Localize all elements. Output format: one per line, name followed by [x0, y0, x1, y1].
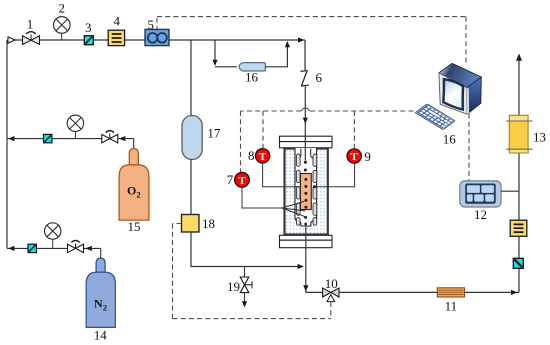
buffer vessel 17: [182, 116, 202, 160]
svg-text:1: 1: [27, 17, 34, 32]
computer 16: monitor: [439, 63, 481, 114]
node: open arrow at top-left corner: [8, 37, 15, 43]
O2 cylinder 15: [119, 149, 149, 221]
gauge on O2 line: [67, 115, 83, 139]
wire: bottom line to valve 10: [306, 291, 323, 293]
node: arrow after N2 regulator: [86, 246, 92, 251]
signal: bus down to monitor: [465, 17, 467, 63]
heater dots: [304, 178, 307, 209]
svg-text:7: 7: [227, 172, 234, 187]
wire: 18 down and right to junction: [191, 232, 303, 267]
controller 18: [182, 215, 200, 233]
node: arrow into left manifold (N2): [8, 246, 14, 251]
node: arrow down on outlet: [303, 285, 308, 291]
analyzer 12: [460, 181, 501, 207]
wire: T7 leads fan: [242, 187, 306, 217]
computer 16: keyboard: [415, 104, 455, 130]
wire: reactor centerline inside tube: [304, 136, 306, 161]
node: thermocouple dots on centerline: [304, 161, 307, 164]
flow meter 16 (capsule): [239, 63, 265, 71]
node: arrow into left manifold (O2): [8, 136, 14, 141]
filter on N2 line: [28, 244, 36, 252]
wire: vessel to box 18: [190, 160, 192, 215]
signal: pump 5 to DAQ bus: [156, 17, 158, 31]
svg-text:19: 19: [227, 279, 240, 294]
wire: O2 bottle riser: [133, 139, 135, 149]
signal: thermocouple bus to keyboard: [241, 110, 414, 112]
wire: T8 lead: [263, 163, 300, 187]
wire: reactor outlet down: [305, 226, 307, 293]
condenser 11: [437, 288, 464, 297]
node: vent arrow up: [516, 54, 522, 61]
wire: O2 feed line: [7, 138, 134, 140]
filter (cyan) on right line: [513, 258, 523, 268]
filter on O2 line: [44, 134, 52, 142]
node: dots below heater: [304, 216, 307, 219]
valve 10: [323, 288, 339, 302]
node: arrow after O2 regulator: [119, 136, 125, 141]
wire: right vertical up: [518, 58, 520, 292]
wire: T9 lead: [314, 163, 354, 187]
regulator on O2 line: [102, 131, 118, 143]
signal: drop to T9: [353, 111, 355, 149]
reactor dotted jacket: [285, 149, 328, 235]
signal: drop to T8: [262, 111, 264, 149]
wire: bypass bottom line: [215, 66, 237, 68]
catalyst holder pills left: [296, 154, 300, 225]
svg-text:2: 2: [59, 1, 66, 16]
wire: N2 bottle riser: [100, 248, 102, 258]
svg-text:11: 11: [445, 299, 458, 314]
svg-text:16: 16: [245, 70, 259, 85]
wire: analyzer to right line: [501, 190, 519, 192]
reactor bottom flange: [280, 235, 333, 240]
svg-text:17: 17: [207, 126, 221, 141]
svg-text:T: T: [351, 151, 359, 163]
svg-text:15: 15: [128, 219, 141, 234]
signal: drop to T7: [240, 111, 242, 172]
svg-text:8: 8: [248, 148, 255, 163]
svg-text:16: 16: [443, 132, 457, 147]
svg-text:T: T: [259, 151, 267, 163]
flow meter (yellow) on right line: [510, 220, 527, 236]
reactor inner quartz tube: [295, 148, 317, 226]
svg-text:6: 6: [315, 70, 322, 85]
thermocouple T9: [347, 149, 361, 163]
wire: drop to buffer vessel 17: [190, 40, 192, 116]
wire: left vertical manifold: [6, 40, 8, 248]
thermocouple T7: [235, 172, 250, 187]
svg-text:3: 3: [85, 20, 92, 35]
gauge 2: [54, 17, 71, 40]
signal: controller 18 loop: [173, 224, 331, 319]
signal: valve 10 actuator: [330, 302, 332, 319]
heater element: [300, 174, 311, 210]
wire: bottom line right: [339, 291, 519, 293]
reactor top flange: [280, 136, 333, 141]
signal: monitor to analyzer 12: [468, 114, 470, 181]
svg-text:T: T: [238, 175, 246, 187]
node: arrow on main line before corner: [298, 37, 304, 42]
wire: N2 feed line: [7, 247, 101, 249]
sampling break 6: [300, 71, 308, 87]
svg-text:4: 4: [114, 13, 121, 28]
svg-text:10: 10: [325, 276, 338, 291]
wire: corner down to break 6: [304, 40, 306, 70]
wire: main top line: [7, 39, 305, 41]
gauge on N2 line: [45, 223, 61, 249]
node: flow arrow into reactor: [303, 118, 308, 124]
node: arrow into junction: [298, 264, 304, 269]
svg-text:13: 13: [533, 130, 546, 145]
valve 1: [23, 32, 40, 45]
svg-text:12: 12: [474, 207, 487, 222]
catalyst holder pills right: [313, 154, 317, 225]
svg-text:9: 9: [364, 149, 371, 164]
regulator on N2 line: [68, 240, 84, 252]
flow controller 4: [108, 30, 124, 45]
wire: bypass drop with arrow: [214, 40, 216, 61]
svg-text:5: 5: [147, 17, 154, 32]
svg-text:18: 18: [202, 216, 215, 231]
column 13: [506, 115, 532, 153]
wire: down into reactor: [304, 87, 306, 161]
dashed signal lines: [157, 17, 469, 319]
wire: bypass return: [265, 46, 287, 67]
node: arrow before bottom-right corner: [511, 290, 517, 295]
signal hop over pipe: [302, 108, 310, 111]
valve 19: [240, 267, 252, 308]
N2 cylinder 14: [86, 258, 115, 327]
filter 3: [84, 36, 93, 45]
pump 5: [145, 29, 169, 45]
signal: top DAQ bus: [157, 16, 466, 18]
thermocouple T8: [255, 149, 269, 163]
svg-text:14: 14: [94, 328, 108, 343]
reactor inlet funnel: [298, 149, 301, 159]
